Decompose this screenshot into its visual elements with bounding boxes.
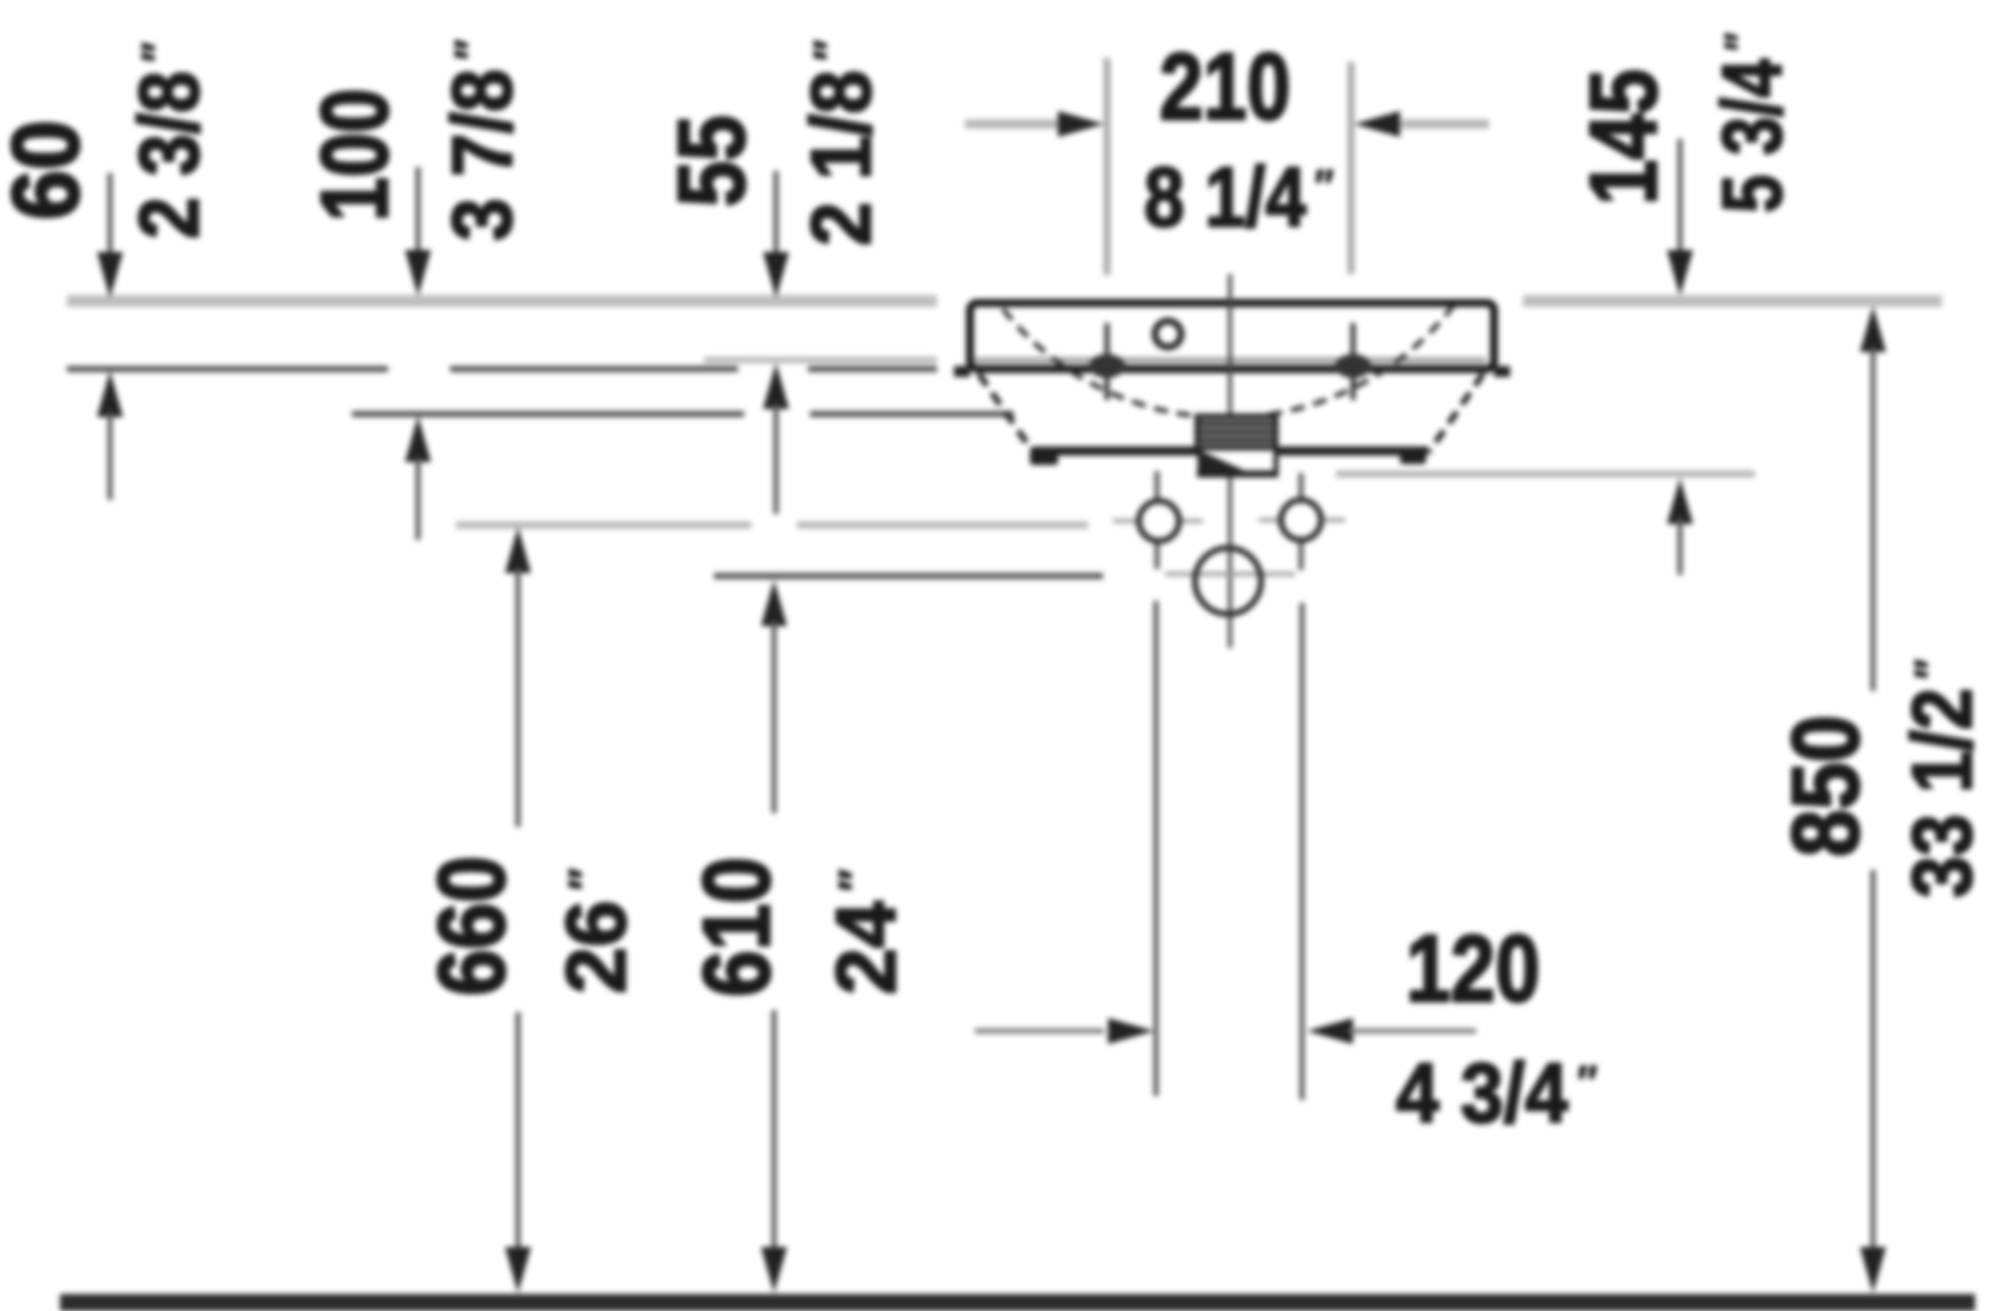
svg-text:24: 24 (819, 901, 913, 995)
label 60 (0, 120, 99, 220)
left faucet hole symbol (1089, 354, 1125, 378)
svg-text:″: ″ (1577, 1057, 1597, 1108)
deck bottom extension seg3 (808, 366, 937, 372)
dim 145 up arrowhead (1667, 478, 1693, 524)
svg-text:60: 60 (0, 120, 99, 220)
dim 100 upper tail (416, 167, 421, 256)
svg-text:″: ″ (133, 42, 185, 62)
dim 610 lower tail (772, 1010, 777, 1254)
dim 210 extension right (1348, 62, 1355, 274)
bowl reference line seg1 (352, 411, 744, 417)
fixing extension line left (1154, 601, 1159, 1096)
dim 60 down arrowhead (97, 252, 123, 298)
left fixing hole tick below (1155, 543, 1160, 569)
drain axis line (1165, 572, 1295, 576)
fixing hole reference seg1 (456, 522, 751, 529)
dim 610 up arrowhead (761, 580, 787, 626)
left fixing hole tick west (1113, 519, 1137, 523)
basin centerline (1228, 274, 1232, 648)
right fixing hole tick west (1259, 518, 1279, 522)
dim 610 down arrowhead (761, 1247, 787, 1293)
dim 660 up arrowhead (505, 527, 531, 573)
dim 850 down arrowhead (1860, 1247, 1886, 1293)
label 610 (683, 857, 789, 997)
deck right corner nub (1494, 366, 1510, 377)
right fixing hole tick east (1323, 518, 1345, 522)
deck bottom extension seg2 (450, 366, 738, 372)
drain hole (1195, 548, 1261, 614)
basin right slant hidden edge (1429, 374, 1483, 452)
wall line left segment (67, 295, 937, 307)
right fixing hole tick above (1299, 473, 1304, 500)
drain adapter lip (1200, 448, 1276, 475)
dim 120 left arrow tail (975, 1029, 1104, 1034)
dim 145 lower tail (1678, 518, 1683, 575)
wall line right segment (1523, 295, 1942, 307)
drain adapter band line1 (1197, 422, 1276, 426)
svg-text:3 7/8: 3 7/8 (436, 69, 530, 241)
svg-text:2 3/8: 2 3/8 (122, 71, 216, 239)
svg-text:8 1/4: 8 1/4 (1144, 150, 1306, 244)
left faucet hole tick (1105, 323, 1110, 400)
svg-text:26: 26 (549, 900, 643, 993)
label 24 in (819, 869, 913, 994)
drain adapter upper band (1197, 416, 1276, 448)
dim 850 lower tail (1871, 870, 1876, 1254)
label 100 (301, 88, 407, 221)
label 3 7/8 in (436, 39, 530, 240)
label 850 (1773, 715, 1879, 857)
basin left slant hidden edge (979, 374, 1033, 452)
label 55 (658, 115, 765, 207)
dim 100 down arrowhead (405, 250, 431, 296)
dim 55 up arrowhead (763, 363, 789, 409)
svg-text:210: 210 (1159, 34, 1290, 140)
svg-text:″: ″ (446, 39, 497, 59)
svg-text:55: 55 (658, 115, 765, 207)
faucet axis line through deck (975, 358, 1486, 363)
dim 145 upper tail (1678, 139, 1683, 258)
label 120 (1406, 915, 1540, 1022)
svg-text:5 3/4: 5 3/4 (1706, 59, 1800, 213)
overflow hole (1155, 321, 1181, 347)
faucet axis extension line (704, 357, 937, 363)
label 26 in (549, 868, 643, 993)
basin right foot (1400, 452, 1426, 464)
label 2 1/8 in (795, 40, 889, 246)
svg-text:″: ″ (1716, 33, 1767, 51)
svg-text:″: ″ (829, 869, 881, 891)
label 660 (418, 856, 524, 996)
dim 850 up arrowhead (1860, 306, 1886, 352)
label 210 (1159, 34, 1290, 140)
drain adapter band line3 (1197, 438, 1276, 442)
left fixing hole tick east (1181, 519, 1203, 523)
label 4 3/4 in (1396, 1047, 1597, 1141)
svg-text:″: ″ (1315, 161, 1334, 212)
dim 100 up arrowhead (405, 416, 431, 462)
right fixing hole (1281, 500, 1321, 540)
dim 660 lower tail (516, 1012, 521, 1254)
dim 55 down arrowhead (763, 252, 789, 298)
right fixing hole tick below (1299, 542, 1304, 570)
dim 210 extension left (1104, 58, 1111, 275)
basin left foot (1030, 452, 1058, 465)
dim 660 down arrowhead (505, 1247, 531, 1293)
drain adapter lip bottom edge (1197, 471, 1278, 478)
svg-text:145: 145 (1570, 69, 1676, 205)
dim 850 upper tail (1871, 347, 1876, 691)
deck bottom extension seg1 (67, 366, 388, 372)
svg-text:33 1/2: 33 1/2 (1895, 688, 1989, 898)
dim 210 right arrow tail (1401, 120, 1489, 129)
svg-text:610: 610 (683, 857, 789, 997)
drain adapter band line2 (1197, 430, 1276, 434)
label 8 1/4 in (1144, 150, 1334, 244)
dim 60 lower tail (108, 412, 113, 500)
basin bottom line (1031, 447, 1428, 456)
svg-text:100: 100 (301, 88, 407, 221)
svg-text:″: ″ (559, 868, 611, 890)
drain reference line (714, 573, 1103, 579)
dim 210 right arrowhead (1354, 111, 1400, 137)
dim 60 upper tail (108, 173, 113, 258)
dim 120 right arrowhead (1307, 1018, 1353, 1044)
dim 60 up arrowhead (97, 371, 123, 417)
dim 55 lower tail (774, 404, 779, 514)
svg-text:2 1/8: 2 1/8 (795, 70, 889, 246)
svg-text:660: 660 (418, 856, 524, 996)
deck left corner nub (954, 366, 970, 377)
dim 610 upper tail (772, 621, 777, 813)
dim 660 upper tail (516, 568, 521, 827)
fixing hole reference seg2 (797, 522, 1088, 529)
label 33 1/2 in (1895, 659, 1989, 898)
dim 210 left arrowhead (1058, 111, 1104, 137)
adapter bottom reference line (1336, 471, 1755, 478)
label 2 3/8 in (122, 42, 216, 239)
svg-text:4 3/4: 4 3/4 (1396, 1047, 1568, 1141)
bowl reference line seg2 (810, 411, 1014, 417)
right faucet hole symbol (1335, 354, 1371, 378)
label 5 3/4 in (1706, 33, 1800, 213)
dim 145 down arrowhead (1667, 250, 1693, 296)
basin deck box (970, 303, 1494, 369)
floor bar (60, 1294, 1975, 1311)
fixing extension line right (1300, 603, 1305, 1100)
dim 100 lower tail (416, 457, 421, 540)
left fixing hole (1139, 501, 1179, 541)
dim 55 upper tail (774, 171, 779, 258)
svg-text:″: ″ (1906, 659, 1958, 679)
svg-text:″: ″ (806, 40, 856, 61)
dim 210 left arrow tail (965, 120, 1058, 129)
right faucet hole tick (1351, 323, 1356, 400)
bowl interior arc (1003, 306, 1453, 418)
svg-text:850: 850 (1773, 715, 1879, 857)
drain adapter dark wedge (1199, 450, 1252, 474)
svg-text:120: 120 (1406, 915, 1540, 1022)
dim 120 right arrow tail (1349, 1029, 1476, 1034)
dim 120 left arrowhead (1108, 1018, 1154, 1044)
label 145 (1570, 69, 1676, 205)
left fixing hole tick above (1155, 471, 1160, 499)
